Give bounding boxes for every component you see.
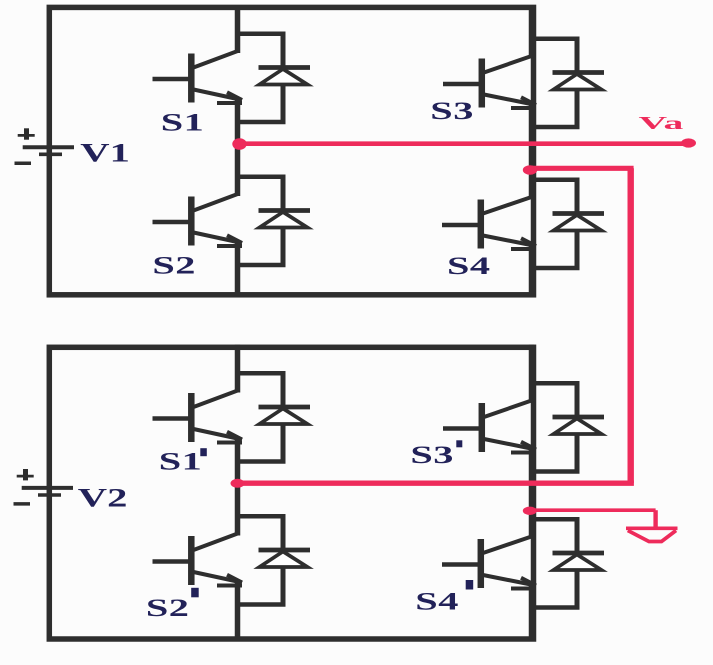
battery V2 negative plate (38, 493, 61, 497)
diode across S4 (freewheeling) (553, 214, 605, 231)
wire: S3 collector feed (529, 5, 535, 58)
svg-text:S2: S2 (146, 594, 190, 622)
wire: S2' diode top branch (238, 514, 284, 550)
wire: S4' diode top branch (532, 517, 578, 553)
transistor S2 (IGBT with base bar, collector and arrowed emitter) (153, 194, 243, 247)
wire: S1' emitter lead (235, 439, 241, 483)
wire: S1' collector feed (235, 345, 241, 393)
transistor S3' (IGBT with base bar, collector and arrowed emitter) (443, 400, 536, 453)
ground symbol (626, 528, 678, 541)
wire: S1 emitter lead (235, 100, 241, 145)
wire: S3' diode bottom branch (532, 434, 580, 472)
wire: S2 emitter lead (235, 243, 241, 298)
wire: S2' collector feed (235, 483, 241, 535)
transistor S4 (IGBT with base bar, collector and arrowed emitter) (442, 197, 536, 250)
wire: S2 diode top branch (238, 175, 284, 211)
label S3' (410, 440, 462, 469)
node D junction dot (S3'/S4' midpoint) (523, 507, 537, 515)
label S4' (415, 580, 473, 615)
terminal dot of Va (681, 138, 696, 147)
wire: S3' diode top branch (532, 381, 578, 417)
diode across S3' (freewheeling) (553, 417, 605, 434)
svg-text:S4: S4 (415, 588, 459, 616)
transistor S3 (IGBT with base bar, collector and arrowed emitter) (443, 56, 536, 109)
battery V1 minus sign (15, 161, 32, 165)
transistor S1' (IGBT with base bar, collector and arrowed emitter) (153, 390, 243, 443)
wire: link net from node B (S3/S4 midpoint) down to node C (S1'/S2' midpoint) (238, 168, 634, 483)
wire: S3 diode top branch (532, 37, 578, 73)
wire: S4 emitter lead (529, 246, 535, 298)
wire: S4 collector feed (529, 170, 535, 199)
wire: S2' diode bottom branch (238, 567, 286, 605)
wire: S4 diode top branch (532, 178, 578, 214)
diode across S2 (freewheeling) (259, 211, 311, 228)
node C junction dot (S1'/S2' midpoint) (231, 479, 245, 488)
svg-text:V1: V1 (80, 139, 130, 167)
wire: bottom H-bridge outer loop (V2 bus) (49, 347, 533, 639)
wire: S2 diode bottom branch (238, 228, 286, 266)
wire: top H-bridge outer loop (V1 bus) (49, 7, 533, 294)
battery V2 plus sign (17, 469, 34, 480)
svg-text:S4: S4 (447, 252, 491, 280)
wire: S2' emitter lead (235, 582, 241, 641)
wire: S1' diode top branch (238, 371, 284, 407)
transistor S2' (IGBT with base bar, collector and arrowed emitter) (153, 533, 243, 586)
svg-text:S1: S1 (161, 109, 205, 137)
wire: S4' diode bottom branch (532, 570, 580, 608)
node B junction dot (S3/S4 midpoint) (523, 165, 537, 175)
transistor S1 (IGBT with base bar, collector and arrowed emitter) (153, 51, 243, 104)
svg-text:S2: S2 (152, 252, 196, 280)
battery V1 negative plate (39, 153, 62, 157)
wire: S1' diode bottom branch (238, 424, 286, 462)
transistor S4' (IGBT with base bar, collector and arrowed emitter) (442, 536, 536, 589)
label S2' (146, 588, 199, 622)
wire: S2 collector feed (235, 144, 241, 196)
wire: net from node D (S3'/S4' midpoint) to ground (530, 510, 656, 527)
wire: S4' collector feed (529, 510, 535, 539)
diode across S2' (freewheeling) (259, 550, 311, 567)
wire: S3 emitter lead (529, 105, 535, 171)
node A junction dot (S1/S2 midpoint) (232, 138, 246, 150)
diode across S3 (freewheeling) (553, 73, 605, 90)
wire: S1 collector feed (235, 5, 241, 53)
diode across S1 (freewheeling) (259, 68, 311, 85)
battery V2 minus sign (14, 502, 31, 506)
svg-text:V2: V2 (78, 484, 128, 512)
wire: S3' collector feed (529, 345, 535, 403)
wire: S3 diode bottom branch (532, 90, 580, 128)
label S1' (159, 448, 207, 476)
battery V2 positive plate (22, 486, 73, 490)
wire: S4 diode bottom branch (532, 231, 580, 269)
wire: S3' emitter lead (529, 449, 535, 510)
battery V1 plus sign (18, 128, 35, 139)
svg-text:Va: Va (639, 113, 684, 133)
wire: output net Va (node A to terminal) (238, 141, 689, 146)
wire: S1 diode top branch (238, 32, 284, 68)
wire: S1 diode bottom branch (238, 85, 286, 123)
svg-text:S3: S3 (410, 441, 454, 469)
diode across S1' (freewheeling) (259, 407, 311, 424)
diode across S4' (freewheeling) (553, 553, 605, 570)
wire: S4' emitter lead (529, 585, 535, 641)
svg-text:S3: S3 (430, 97, 474, 125)
svg-text:S1: S1 (159, 448, 203, 476)
battery V1 positive plate (23, 145, 74, 149)
